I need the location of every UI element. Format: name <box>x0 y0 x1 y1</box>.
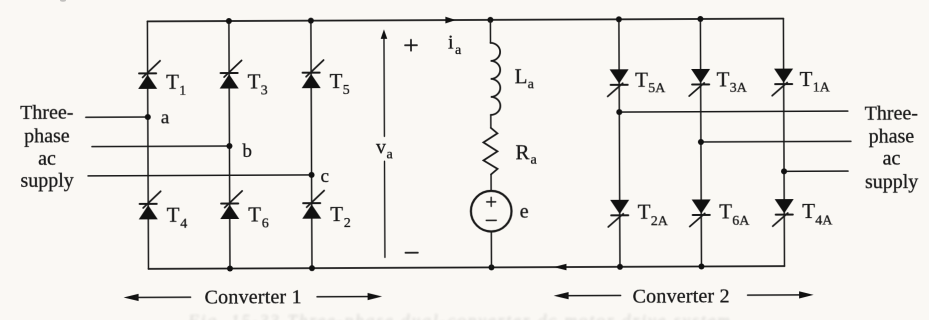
svg-text:a: a <box>528 77 535 92</box>
svg-text:Three-: Three- <box>865 103 918 125</box>
svg-text:4A: 4A <box>815 213 833 228</box>
svg-text:phase: phase <box>869 125 915 147</box>
svg-text:T: T <box>802 199 815 223</box>
svg-text:T: T <box>717 67 730 91</box>
svg-text:v: v <box>376 136 386 158</box>
svg-text:5: 5 <box>343 83 350 98</box>
svg-text:ac: ac <box>38 148 56 170</box>
svg-text:Converter 2: Converter 2 <box>633 285 730 307</box>
svg-text:b: b <box>242 141 252 162</box>
svg-text:phase: phase <box>24 125 70 147</box>
svg-text:a: a <box>161 107 170 128</box>
svg-text:supply: supply <box>865 171 918 193</box>
svg-text:a: a <box>455 43 462 58</box>
svg-text:6A: 6A <box>732 214 750 229</box>
svg-text:T: T <box>330 69 343 93</box>
svg-text:ac: ac <box>883 148 901 170</box>
svg-text:a: a <box>386 147 393 162</box>
svg-text:T: T <box>719 199 732 223</box>
svg-text:1A: 1A <box>813 80 831 95</box>
svg-text:2A: 2A <box>651 214 669 229</box>
svg-text:6: 6 <box>262 216 269 231</box>
svg-text:a: a <box>530 153 537 168</box>
svg-text:T: T <box>800 67 813 91</box>
svg-text:i: i <box>448 32 454 54</box>
svg-text:T: T <box>635 67 648 91</box>
svg-text:3A: 3A <box>730 81 748 96</box>
svg-text:e: e <box>520 201 529 223</box>
svg-text:L: L <box>515 64 528 88</box>
svg-text:4: 4 <box>180 217 187 232</box>
svg-text:T: T <box>248 202 261 226</box>
svg-text:T: T <box>330 202 343 226</box>
svg-text:Converter 1: Converter 1 <box>205 286 302 308</box>
svg-text:Fig. 15-33 Three-phase dual-: Fig. 15-33 Three-phase dual-converter dc… <box>187 311 731 320</box>
svg-text:supply: supply <box>20 170 73 192</box>
svg-text:2: 2 <box>344 216 351 231</box>
svg-text:3: 3 <box>261 83 268 98</box>
svg-text:T: T <box>166 70 179 94</box>
svg-text:c: c <box>321 166 330 187</box>
svg-text:T: T <box>248 69 261 93</box>
svg-text:T: T <box>167 203 180 227</box>
svg-text:Three-: Three- <box>20 102 73 124</box>
svg-text:5A: 5A <box>648 81 666 96</box>
svg-text:T: T <box>638 200 651 224</box>
svg-text:1: 1 <box>179 84 186 99</box>
svg-text:R: R <box>515 140 529 164</box>
